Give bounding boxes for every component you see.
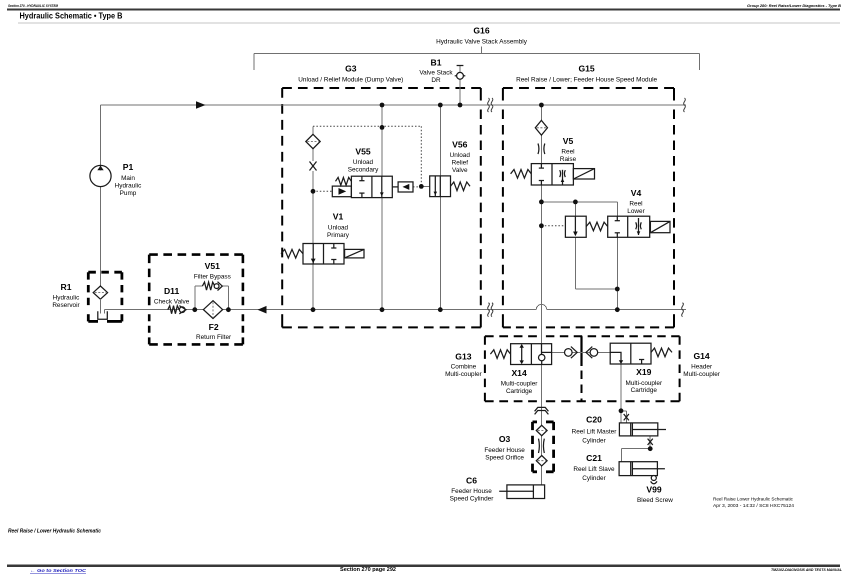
module box G3 (dashed) [282,88,481,327]
label G16 [436,26,528,46]
svg-text:DR: DR [431,77,441,84]
svg-text:Cylinder: Cylinder [582,438,606,445]
valve X14 [490,344,551,365]
quick disconnect coupling [535,407,549,414]
node supply/G15 [539,103,544,108]
svg-text:Multi-coupler: Multi-coupler [445,371,482,378]
pilot filter G15 [535,120,547,135]
node bypass right [226,307,231,312]
footer manual id [771,567,843,572]
wire X14 output [552,351,611,353]
pilot line V4 (dotted) [541,225,565,227]
label V99 [637,485,673,505]
bleed fitting C21 port [648,439,653,445]
label V56 [450,140,471,175]
svg-text:Reel Raise / Lower; Feeder Hou: Reel Raise / Lower; Feeder House Speed M… [516,77,657,84]
svg-text:Unload: Unload [353,159,374,166]
label G3 [298,64,403,84]
label R1 [52,282,80,309]
svg-text:C21: C21 [586,453,602,463]
svg-text:Primary: Primary [327,232,350,239]
node V4 drain tee [615,287,620,292]
label B1 [419,58,453,85]
wire V55 to V56 [421,185,429,187]
page header right text [747,3,841,8]
svg-text:C6: C6 [466,476,477,486]
svg-text:V1: V1 [333,212,344,222]
svg-text:B1: B1 [431,58,442,68]
reservoir R1 filter [93,286,107,314]
svg-text:Multi-coupler: Multi-coupler [501,381,538,388]
return line hop over reel line [536,304,547,309]
svg-text:Multi-coupler: Multi-coupler [683,371,720,378]
svg-text:Cartridge: Cartridge [631,387,658,394]
svg-text:Unload / Relief Module (Dump V: Unload / Relief Module (Dump Valve) [298,77,403,84]
svg-text:Pump: Pump [120,190,137,197]
restrictor G15 [538,144,545,155]
wire X19 drop to C20 [621,364,626,423]
svg-text:Reel: Reel [629,201,642,208]
svg-text:Group 280: Reel Raise/Lower Di: Group 280: Reel Raise/Lower Diagnostics … [747,3,841,8]
svg-text:Reel Lift Master: Reel Lift Master [572,429,618,436]
label X19 [626,367,663,394]
node supply/B1 [458,103,463,108]
svg-text:Section 270 - HYDRAULIC SYSTEM: Section 270 - HYDRAULIC SYSTEM [8,3,59,8]
orifice O3 upper [536,425,547,435]
label F2 [196,322,232,341]
page title [20,11,123,20]
plot caption [713,497,794,509]
svg-text:G13: G13 [455,352,471,362]
svg-text:Secondary: Secondary [348,167,379,174]
module box G15 (dashed) [503,88,674,327]
svg-text:Bleed Screw: Bleed Screw [637,497,673,504]
pilot line V55 left (dotted) [313,190,332,192]
node return/V4 [615,307,620,312]
orifice module O3 box [533,422,554,472]
bleed screw V99 [651,476,657,484]
page header rule [7,8,840,10]
svg-text:Section 270 page 292: Section 270 page 292 [340,567,396,573]
svg-text:Hydraulic: Hydraulic [53,295,80,302]
wire C20 to C21 [621,436,650,462]
port B1 valve stack DR [455,66,466,80]
svg-text:TM2102-DIAGNOSIS AND TESTS MAN: TM2102-DIAGNOSIS AND TESTS MANUAL [771,567,843,572]
valve V1 [281,244,364,265]
svg-text:P1: P1 [123,162,134,172]
wire V5 to V4 link [541,202,617,216]
bleed fitting C20 port [624,414,629,420]
svg-text:← Go to Section TOC: ← Go to Section TOC [30,568,87,574]
node V5 out [539,200,544,205]
label P1 [115,162,142,197]
svg-text:Reservoir: Reservoir [52,302,80,309]
svg-text:O3: O3 [499,434,511,444]
svg-text:G3: G3 [345,64,357,74]
label G15 [516,64,657,84]
valve V4 [586,216,670,237]
svg-text:Unload: Unload [450,152,471,159]
wire B1 drain drop [459,66,461,106]
coupler check left [565,347,578,359]
svg-text:Hydraulic: Hydraulic [115,183,142,190]
svg-text:V4: V4 [631,188,642,198]
title underline [18,22,840,24]
svg-text:V99: V99 [646,485,662,495]
bottom caption [8,529,101,535]
cylinder C20 [619,423,666,436]
arrow supply flow right [196,101,206,109]
cylinder C21 [619,462,665,476]
label C6 [450,476,495,503]
pilot line G3 top (dotted) [313,126,421,186]
svg-text:V55: V55 [355,147,371,157]
svg-text:Reel Raise / Lower Hydraulic S: Reel Raise / Lower Hydraulic Schematic [8,529,101,535]
svg-text:Reel Lift Slave: Reel Lift Slave [573,466,615,473]
svg-text:G14: G14 [693,351,709,361]
return filter F2 [203,301,222,319]
svg-text:V5: V5 [563,136,574,146]
label V55 [348,147,379,174]
node supply/G3 center [380,103,385,108]
orifice O3 restrictor [539,439,545,453]
wire V4 drain [575,237,617,309]
svg-text:Speed Cylinder: Speed Cylinder [450,496,495,503]
line break mark return right [682,303,684,317]
reservoir R1 tank [98,311,108,319]
node bypass left [192,307,197,312]
svg-text:Feeder House: Feeder House [484,447,525,454]
label G14 [683,351,720,378]
label V51 [194,261,231,281]
label C21 [573,453,615,482]
wire G3 relief rail [439,105,441,310]
node pilot top/center [380,125,385,130]
label D11 [154,286,190,305]
valve V5 [511,164,595,185]
pilot filter G3 [306,134,320,148]
svg-text:Raise: Raise [560,156,577,163]
closed mark G3 left rail [310,162,317,171]
page header left text [8,3,59,8]
orifice O3 lower [536,456,547,466]
wire reservoir drop [103,310,105,314]
wire G3 center rail [381,105,383,310]
reservoir R1 box [88,272,122,321]
label V4 [627,188,645,215]
filter box D11/V51/F2 (dashed) [149,255,243,345]
wire pump riser [100,105,102,287]
svg-text:X19: X19 [636,367,652,377]
svg-text:Relief: Relief [452,160,469,167]
footer TOC link [30,568,87,574]
svg-text:X14: X14 [511,368,527,378]
node supply/G3 relief [438,103,443,108]
label G13 [445,352,482,379]
pump P1 [90,165,111,186]
svg-text:Return Filter: Return Filter [196,334,232,341]
svg-text:Filter Bypass: Filter Bypass [194,274,231,281]
valve X19 [610,343,672,364]
node C20 out [648,446,653,451]
svg-text:G16: G16 [473,26,489,36]
node G3 left pilot [311,189,316,194]
label O3 [484,434,525,462]
node V4 pilot tap [539,223,544,228]
svg-text:R1: R1 [61,282,72,292]
node return/G3 relief [438,307,443,312]
wire V4 pilot feed [574,202,576,216]
bypass valve V51 [202,282,222,291]
footer rule [7,565,840,567]
svg-text:Feeder House: Feeder House [451,488,492,495]
label X14 [501,368,538,395]
line break mark supply left [488,98,493,112]
svg-text:Hydraulic Valve Stack Assembly: Hydraulic Valve Stack Assembly [436,39,528,46]
line break mark supply right [684,98,686,112]
wire G3 left rail [312,126,314,309]
valve V55 [332,176,413,197]
svg-text:Unload: Unload [328,225,349,232]
wire V51 bypass loop [195,286,228,310]
check valve D11 [168,306,186,314]
wire G15 main rail [540,105,542,485]
node V4 pilot tee [573,200,578,205]
svg-text:V51: V51 [205,261,221,271]
svg-text:F2: F2 [209,322,219,332]
svg-text:D11: D11 [164,286,180,296]
svg-text:Combine: Combine [451,364,477,371]
svg-text:V56: V56 [452,140,468,150]
svg-text:Apr 3, 2003 - 14:32 / SC8 H: Apr 3, 2003 - 14:32 / SC8 HXC75124 [713,503,794,508]
svg-text:Main: Main [121,175,135,182]
valve V4 pilot box [565,216,586,237]
pilot line V55 right (dotted) [413,186,421,188]
node return/G3 center [380,307,385,312]
G16 bracket [254,47,699,71]
footer page number [340,567,396,573]
svg-text:Cylinder: Cylinder [582,475,606,482]
node V55-V56 pilot [419,184,424,189]
wire supply line [101,104,687,106]
coupler check right [586,347,598,359]
node return/G3 left [311,307,316,312]
module box G13/G14 (dashed) [485,336,680,401]
svg-text:Lower: Lower [627,208,645,215]
valve V56 [430,176,470,197]
svg-text:Header: Header [691,363,713,370]
label V1 [327,212,350,240]
node X19 out [619,408,624,413]
svg-text:G15: G15 [578,64,594,74]
svg-text:Valve Stack: Valve Stack [419,70,453,77]
svg-text:Cartridge: Cartridge [506,388,533,395]
svg-text:Speed Orifice: Speed Orifice [485,455,524,462]
line break mark return left [488,303,493,317]
svg-text:Multi-coupler: Multi-coupler [626,380,663,387]
wire return line [104,309,686,311]
svg-text:Valve: Valve [452,167,468,174]
label V5 [560,136,577,163]
G13/G14 divider [580,336,582,401]
svg-text:Hydraulic Schematic • Type B: Hydraulic Schematic • Type B [20,11,123,20]
svg-text:Reel Raise Lower Hydraulic Sch: Reel Raise Lower Hydraulic Schematic [713,497,794,502]
label C20 [572,415,618,445]
arrow return flow left [258,306,267,314]
svg-text:C20: C20 [586,415,602,425]
cylinder C6 [499,485,544,499]
svg-text:Check Valve: Check Valve [154,298,190,305]
svg-text:Reel: Reel [561,149,574,156]
